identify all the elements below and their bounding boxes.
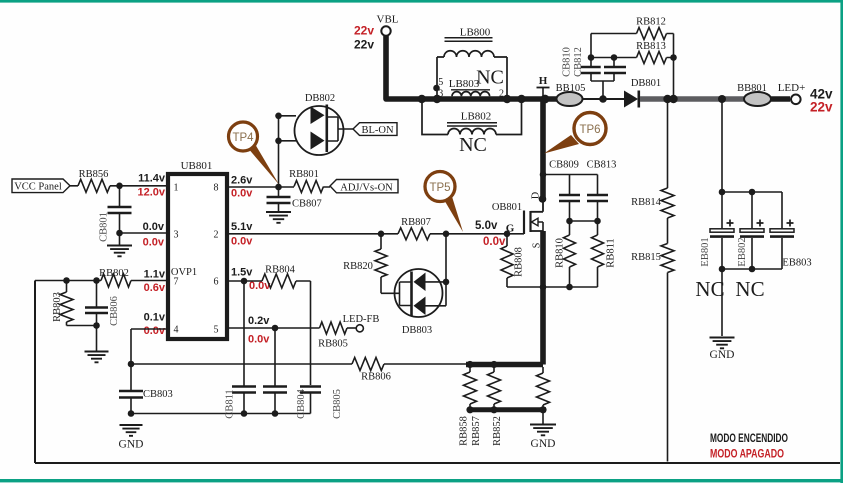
- svg-text:TP4: TP4: [232, 132, 254, 144]
- dual diode DB802: [275, 93, 353, 187]
- ground GND right: [710, 338, 735, 362]
- svg-text:0.1v: 0.1v: [144, 312, 166, 324]
- svg-text:CB806: CB806: [109, 296, 120, 326]
- capacitor labels CB810 CB812: [562, 47, 585, 77]
- svg-text:7: 7: [174, 277, 179, 288]
- terminal LED-FB: [343, 314, 380, 332]
- legend MODO APAGADO: [710, 447, 784, 461]
- wire left border: [35, 281, 840, 464]
- transformer LB800: [422, 27, 522, 157]
- svg-text:D: D: [531, 192, 542, 199]
- test point TP6: [544, 113, 606, 154]
- VBL voltage labels: [354, 24, 374, 52]
- connector ADJ/Vs-ON: [330, 180, 398, 194]
- labels CB809 CB813: [549, 160, 616, 171]
- svg-text:LB802: LB802: [461, 111, 492, 123]
- op-amp U1 UB801 box: [168, 160, 227, 339]
- svg-text:RB858: RB858: [459, 416, 470, 446]
- test point H: [537, 75, 550, 96]
- svg-text:RB806: RB806: [361, 372, 391, 383]
- resistor RB805: [318, 322, 348, 350]
- svg-text:GND: GND: [531, 438, 556, 450]
- svg-text:RB803: RB803: [52, 292, 63, 322]
- svg-text:RB820: RB820: [343, 261, 373, 272]
- svg-text:CB811: CB811: [225, 389, 236, 418]
- capacitors CB809 CB813 with resistors RB810 RB811: [507, 171, 608, 290]
- svg-text:NC: NC: [695, 277, 724, 301]
- svg-text:0.0v: 0.0v: [143, 221, 165, 233]
- svg-text:NC: NC: [476, 67, 504, 89]
- capacitor CB804: [263, 328, 307, 419]
- svg-text:RB807: RB807: [401, 217, 431, 228]
- svg-text:GND: GND: [710, 349, 735, 361]
- svg-text:LED-FB: LED-FB: [343, 314, 380, 325]
- pin3 voltages: [143, 221, 165, 249]
- svg-text:CB812: CB812: [573, 47, 584, 77]
- svg-text:OVP1: OVP1: [171, 267, 197, 278]
- svg-text:4: 4: [174, 325, 179, 336]
- wire pin3 row: [120, 232, 169, 234]
- capacitor bank EB801 EB802 EB803: [710, 101, 794, 336]
- resistor network RB812 RB813: [581, 17, 674, 100]
- capacitor CB801: [99, 183, 132, 245]
- svg-text:CB803: CB803: [143, 389, 173, 400]
- ground under CB801: [107, 246, 132, 257]
- svg-text:RB856: RB856: [79, 169, 109, 180]
- svg-text:OB801: OB801: [492, 202, 522, 213]
- wire pin8 row: [227, 186, 330, 188]
- svg-text:RB852: RB852: [492, 416, 503, 446]
- label EB802: [737, 237, 748, 266]
- ferrite bead BB801: [737, 83, 771, 106]
- svg-text:DB801: DB801: [631, 78, 661, 89]
- green frame top: [0, 0, 843, 3]
- svg-text:1: 1: [174, 183, 179, 194]
- svg-text:RB815: RB815: [631, 252, 661, 263]
- dual diode DB803: [395, 234, 450, 336]
- svg-text:DB803: DB803: [402, 325, 432, 336]
- snubber junction dots: [588, 54, 677, 61]
- svg-text:22v: 22v: [810, 100, 833, 115]
- svg-text:RB810: RB810: [555, 238, 566, 268]
- terminal VBL: [377, 14, 399, 36]
- svg-text:CB805: CB805: [332, 389, 343, 419]
- test point TP5: [425, 172, 463, 233]
- resistor RB815: [631, 244, 674, 273]
- svg-text:EB803: EB803: [782, 258, 811, 269]
- svg-text:CB801: CB801: [99, 212, 110, 242]
- svg-text:RB814: RB814: [631, 197, 662, 208]
- ground under CB807: [266, 212, 291, 223]
- svg-text:VBL: VBL: [377, 14, 399, 26]
- gate net dots: [378, 231, 511, 238]
- svg-text:RB857: RB857: [471, 416, 482, 446]
- svg-text:CB813: CB813: [587, 160, 617, 171]
- svg-text:BL-ON: BL-ON: [361, 125, 393, 136]
- svg-text:CB807: CB807: [292, 199, 322, 210]
- svg-text:1.5v: 1.5v: [231, 267, 253, 279]
- svg-text:3: 3: [174, 230, 179, 241]
- svg-text:EB801: EB801: [700, 237, 711, 266]
- svg-text:11.4v: 11.4v: [138, 173, 166, 185]
- svg-text:MODO APAGADO: MODO APAGADO: [710, 447, 784, 461]
- label EB801: [700, 237, 711, 266]
- pin1 voltages: [137, 173, 165, 199]
- svg-text:0.0v: 0.0v: [248, 334, 270, 346]
- svg-text:8: 8: [214, 183, 219, 194]
- ground under CB806: [85, 352, 109, 363]
- capacitor CB806: [85, 277, 120, 351]
- NC NC labels: [695, 277, 764, 301]
- wire bottom cap rail: [131, 410, 311, 417]
- label RB857: [471, 416, 482, 446]
- resistor RB856: [78, 169, 110, 192]
- svg-text:12.0v: 12.0v: [137, 187, 165, 199]
- svg-text:TP6: TP6: [579, 124, 600, 136]
- capacitor CB807: [267, 184, 322, 212]
- svg-text:0.0v: 0.0v: [144, 325, 166, 337]
- svg-text:2.6v: 2.6v: [231, 175, 253, 187]
- wire output bus gray: [640, 96, 744, 102]
- pin7 voltages: [144, 269, 166, 295]
- terminal LED+: [778, 82, 806, 104]
- ferrite bead BB105: [556, 83, 586, 106]
- junction dots on bus: [418, 85, 550, 104]
- svg-text:LED+: LED+: [778, 82, 806, 94]
- legend MODO ENCENDIDO: [710, 431, 788, 445]
- svg-text:0.0v: 0.0v: [231, 188, 253, 200]
- wire drain vertical thick: [539, 99, 547, 203]
- gate voltage labels: [475, 220, 506, 248]
- svg-text:TP5: TP5: [429, 182, 450, 194]
- svg-text:GND: GND: [119, 439, 144, 451]
- label RB811: [606, 238, 617, 267]
- wire output bus to LED terminal: [771, 96, 790, 102]
- resistor RB804: [262, 265, 296, 289]
- svg-text:0.0v: 0.0v: [483, 236, 506, 248]
- wire source thick: [466, 231, 543, 365]
- svg-text:0.2v: 0.2v: [248, 315, 270, 327]
- output voltage labels: [810, 87, 833, 115]
- svg-text:VCC Panel: VCC Panel: [14, 182, 62, 193]
- wire gate row: [229, 233, 524, 235]
- svg-text:CB810: CB810: [562, 47, 573, 77]
- resistor RB802: [99, 268, 131, 287]
- svg-text:5.0v: 5.0v: [475, 220, 498, 232]
- transistor OB801: [492, 192, 543, 248]
- svg-text:22v: 22v: [354, 24, 374, 38]
- wire right branch: [667, 101, 669, 462]
- svg-text:EB802: EB802: [737, 237, 748, 266]
- svg-text:5.1v: 5.1v: [231, 221, 253, 233]
- svg-text:CB809: CB809: [549, 160, 579, 171]
- label EB803: [782, 258, 811, 269]
- svg-text:MODO ENCENDIDO: MODO ENCENDIDO: [710, 431, 788, 445]
- label RB810: [555, 238, 566, 268]
- ground GND center: [530, 412, 556, 450]
- wire VBL thick bus: [386, 36, 557, 99]
- resistor RB808: [501, 234, 525, 287]
- resistor RB803: [52, 277, 97, 325]
- svg-text:RB802: RB802: [99, 268, 129, 279]
- svg-text:ADJ/Vs-ON: ADJ/Vs-ON: [340, 183, 393, 194]
- svg-text:NC: NC: [735, 277, 764, 301]
- svg-text:6: 6: [214, 277, 219, 288]
- resistor RB807: [398, 217, 431, 240]
- wire pin7 row: [35, 280, 168, 282]
- resistor RB820: [343, 234, 399, 293]
- svg-text:RB813: RB813: [636, 41, 666, 52]
- svg-text:NC: NC: [459, 134, 487, 156]
- capacitor CB803: [119, 364, 173, 417]
- svg-text:RB811: RB811: [606, 238, 617, 267]
- capacitor CB805: [300, 386, 343, 419]
- pin5 voltages: [248, 315, 270, 346]
- capacitor CB811: [225, 281, 257, 419]
- resistors RB858 RB857 RB852: [464, 361, 550, 414]
- connector BL-ON: [353, 123, 397, 136]
- output bus dots: [599, 95, 726, 103]
- svg-text:RB804: RB804: [265, 265, 296, 276]
- wire pin4 row: [128, 329, 168, 367]
- svg-text:BB105: BB105: [556, 83, 586, 94]
- diode DB801: [583, 78, 662, 108]
- svg-text:H: H: [539, 75, 548, 87]
- label RB852: [492, 416, 503, 446]
- svg-text:DB802: DB802: [305, 93, 335, 104]
- svg-text:2: 2: [214, 230, 219, 241]
- wire pin6 row: [227, 278, 311, 385]
- svg-text:LB800: LB800: [460, 27, 491, 39]
- pin8 voltages: [231, 175, 253, 200]
- UB801 pin numbers: [171, 183, 219, 336]
- svg-text:BB801: BB801: [737, 83, 767, 94]
- green frame right: [840, 0, 843, 483]
- label RB858: [459, 416, 470, 446]
- svg-text:0.0v: 0.0v: [231, 236, 253, 248]
- resistor RB801: [289, 169, 323, 193]
- green frame bottom: [0, 479, 843, 482]
- test point TP4: [229, 122, 280, 185]
- wire VCC row: [70, 185, 168, 187]
- pin2 voltages: [231, 221, 253, 248]
- svg-text:0.0v: 0.0v: [143, 237, 165, 249]
- svg-text:RB808: RB808: [514, 247, 525, 277]
- svg-text:UB801: UB801: [181, 160, 213, 172]
- wire feedback rail: [131, 363, 466, 365]
- ground GND left: [119, 425, 144, 451]
- connector VCC_Panel: [12, 179, 70, 193]
- svg-text:RB805: RB805: [318, 339, 348, 350]
- svg-text:RB812: RB812: [636, 17, 666, 28]
- svg-text:22v: 22v: [354, 38, 374, 52]
- svg-text:RB801: RB801: [289, 169, 319, 180]
- svg-text:1.1v: 1.1v: [144, 269, 166, 281]
- pin4 voltages: [144, 312, 166, 338]
- resistor RB806: [352, 358, 391, 383]
- svg-text:0.6v: 0.6v: [144, 282, 166, 294]
- pin6 voltages: [231, 267, 271, 293]
- svg-text:5: 5: [214, 325, 219, 336]
- wire pin5 row: [227, 325, 320, 332]
- resistor RB814: [631, 188, 674, 218]
